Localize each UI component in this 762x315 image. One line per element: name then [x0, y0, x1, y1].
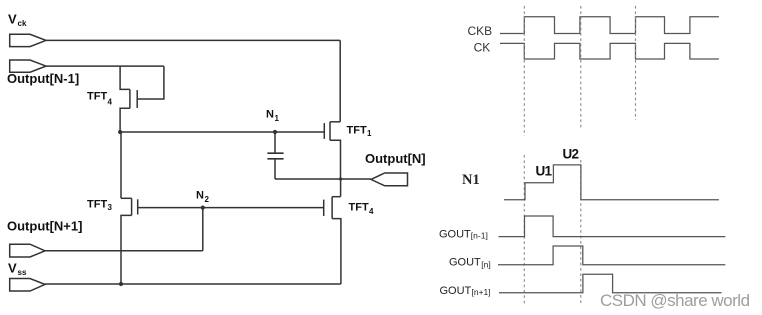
TFT4 top gate bar: [136, 90, 138, 108]
TFT4 top drain lead: [120, 66, 130, 89]
dashed timing line 3: [635, 6, 637, 120]
label U2: [563, 146, 579, 161]
capacitor bottom lead: [274, 159, 276, 179]
wire Vck horizontal to TFT1 drain: [46, 39, 340, 41]
TFT1 gate bar: [323, 123, 325, 139]
label N2: [196, 190, 210, 205]
waveform GOUT[n+1]: [499, 274, 722, 292]
label TFT4 (bottom): [349, 202, 375, 216]
wire Output[N+1] up to node N2: [202, 208, 204, 251]
svg-text:ss: ss: [18, 268, 27, 277]
wire Output[N-1] horizontal: [46, 65, 164, 67]
label Output[N-1]: [7, 71, 79, 86]
svg-text:1: 1: [367, 129, 372, 138]
junction dot output node: [339, 177, 342, 180]
wire left vertical N1 node down to TFT3 drain: [120, 132, 122, 198]
TFT3 channel: [131, 198, 133, 215]
label U1: [536, 163, 553, 178]
svg-text:Output[N]: Output[N]: [365, 151, 426, 166]
svg-text:U2: U2: [563, 146, 579, 161]
TFT3 gate bar: [137, 199, 139, 214]
svg-text:N: N: [266, 109, 274, 121]
transistor TFT4 bottom: [324, 197, 341, 284]
TFT4 top gate wire loop to drain: [137, 66, 164, 99]
input port connector Vck: [10, 34, 46, 46]
label GOUT[n+1]: [440, 285, 491, 297]
waveform CK: [500, 43, 719, 59]
TFT3 source lead: [121, 215, 132, 284]
svg-text:TFT: TFT: [347, 125, 367, 137]
svg-text:Output[N-1]: Output[N-1]: [7, 71, 79, 86]
capacitor top lead: [274, 132, 276, 153]
svg-text:GOUT: GOUT: [439, 228, 471, 240]
svg-text:TFT: TFT: [349, 202, 369, 214]
svg-text:U1: U1: [536, 163, 553, 178]
svg-text:V: V: [8, 12, 17, 27]
dashed timing line 1: [523, 6, 525, 305]
watermark CSDN @share world: [600, 291, 750, 310]
wire Output[N] horizontal: [275, 178, 371, 180]
transistor TFT3: [121, 198, 138, 284]
output port connector Output[N]: [371, 173, 408, 186]
waveform GOUT[n]: [498, 246, 725, 265]
TFT3 drain lead: [121, 197, 132, 199]
input port connector Output[N+1]: [10, 244, 45, 257]
transistor TFT4 top (diode-connected): [120, 66, 164, 132]
svg-text:ck: ck: [18, 19, 27, 28]
svg-text:[n]: [n]: [481, 259, 490, 269]
svg-text:2: 2: [205, 195, 210, 204]
wire node N1 horizontal: [120, 131, 324, 133]
svg-text:GOUT: GOUT: [449, 257, 481, 269]
TFT1 channel: [329, 122, 331, 140]
svg-text:N1: N1: [462, 172, 480, 188]
svg-text:4: 4: [108, 97, 113, 106]
TFT4 bottom channel: [331, 197, 333, 219]
input port connector Output[N-1]: [10, 60, 46, 72]
TFT1 source lead: [330, 140, 341, 179]
label TFT3: [87, 199, 113, 213]
svg-text:GOUT: GOUT: [440, 285, 472, 297]
svg-text:TFT: TFT: [87, 199, 107, 211]
waveform GOUT[n-1]: [499, 216, 726, 237]
label GOUT[n-1]: [439, 228, 488, 240]
label CKB: [468, 24, 493, 38]
label N1: [266, 109, 280, 123]
wire Vss rail horizontal: [45, 283, 341, 285]
node N1 junction dot left: [118, 130, 122, 134]
svg-text:V: V: [8, 260, 17, 275]
label GOUT[n]: [449, 257, 491, 270]
svg-text:CKB: CKB: [468, 24, 493, 38]
svg-text:4: 4: [369, 207, 374, 216]
TFT1 drain lead: [330, 121, 340, 123]
node N2 junction dot: [201, 206, 205, 210]
TFT4 bottom drain lead: [332, 196, 341, 198]
label Output[N]: [365, 151, 426, 166]
input port connector Vss: [10, 279, 45, 292]
svg-text:CK: CK: [474, 40, 491, 54]
svg-text:CSDN @share world: CSDN @share world: [600, 291, 750, 310]
wire output node down to TFT4 bottom drain: [340, 179, 342, 197]
wire node N2 horizontal (gate wire TFT3 to TFT4): [138, 207, 324, 209]
label CK: [474, 40, 491, 54]
node N1 junction dot at capacitor: [273, 130, 277, 134]
label N1 (timing): [462, 172, 480, 188]
capacitor C1: [267, 132, 283, 179]
waveform N1 bootstrap staircase: [504, 165, 719, 200]
svg-text:TFT: TFT: [87, 91, 107, 103]
label TFT4 (top): [87, 91, 113, 107]
capacitor bottom plate: [267, 158, 283, 160]
wire vertical Vck down to TFT1 drain: [339, 40, 341, 121]
label Vck: [8, 12, 27, 29]
label TFT1: [347, 125, 373, 139]
TFT4 top source lead: [120, 108, 130, 132]
transistor TFT1: [324, 122, 340, 179]
capacitor top plate: [267, 152, 283, 154]
label Vss: [8, 260, 27, 277]
svg-text:3: 3: [108, 203, 113, 212]
svg-text:1: 1: [275, 114, 280, 123]
label Output[N+1]: [7, 218, 82, 233]
waveform CKB: [500, 17, 719, 34]
TFT4 top channel: [129, 89, 131, 108]
junction dot Vss rail: [119, 282, 123, 286]
dashed timing line 2: [580, 6, 582, 303]
svg-text:Output[N+1]: Output[N+1]: [7, 218, 82, 233]
TFT4 bottom gate bar: [323, 200, 325, 216]
svg-text:[n+1]: [n+1]: [472, 287, 491, 297]
wire Output[N+1] horizontal: [45, 250, 203, 252]
TFT4 bottom source lead: [332, 219, 341, 284]
svg-text:N: N: [196, 190, 204, 202]
svg-text:[n-1]: [n-1]: [471, 230, 488, 240]
